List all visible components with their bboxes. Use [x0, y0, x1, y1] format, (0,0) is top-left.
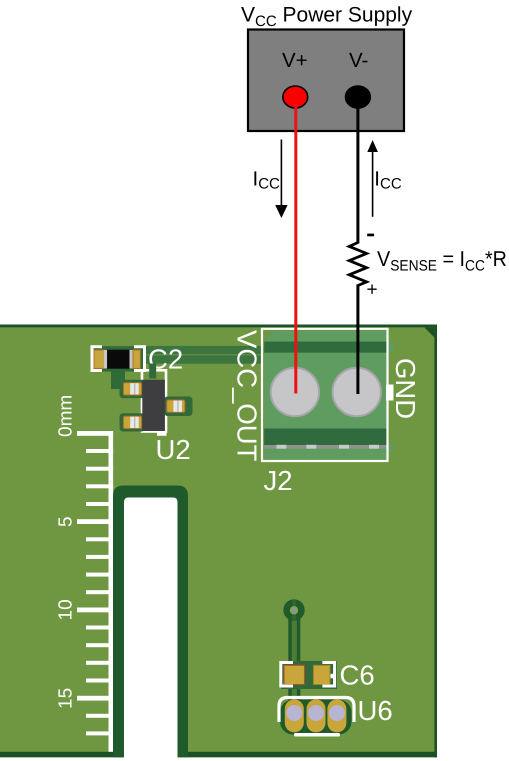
label C6 [340, 660, 375, 691]
current arrow up [367, 140, 378, 217]
resistor R sense [349, 243, 366, 286]
label U6 [358, 695, 393, 726]
trace C2 to J2 upper [100, 346, 263, 354]
svg-text:10: 10 [56, 599, 77, 620]
svg-text:0mm: 0mm [56, 395, 77, 437]
svg-text:ICC: ICC [253, 167, 281, 192]
svg-text:VCC Power Supply: VCC Power Supply [241, 4, 413, 31]
svg-text:U2: U2 [156, 434, 191, 465]
svg-text:C6: C6 [340, 660, 375, 691]
svg-text:5: 5 [56, 516, 77, 527]
svg-text:VSENSE = ICC*R: VSENSE = ICC*R [377, 247, 507, 275]
svg-text:V-: V- [349, 49, 368, 72]
svg-text:GND: GND [390, 358, 421, 419]
label ICC left [253, 167, 281, 192]
label V+ [282, 49, 308, 72]
connector J2 [262, 329, 394, 461]
label GND [390, 358, 421, 419]
via [283, 599, 304, 620]
label C2 [148, 344, 183, 375]
ruler label 0mm [56, 395, 77, 437]
ruler label 5 [56, 516, 77, 527]
svg-text:15: 15 [56, 688, 77, 709]
connector U6 [279, 698, 354, 737]
trace via to U6 [288, 610, 300, 700]
label VSENSE equation [377, 247, 507, 275]
svg-text:V+: V+ [282, 49, 308, 72]
slot cutout [113, 486, 188, 761]
capacitor C6 [281, 661, 337, 689]
terminal V- black [346, 86, 371, 108]
label VCC Power Supply [241, 4, 413, 31]
ruler [77, 431, 113, 752]
transistor U2 [120, 364, 193, 436]
label U2 [156, 434, 191, 465]
terminal V+ red [283, 86, 308, 108]
power supply box [248, 30, 404, 132]
wire black V- to resistor [356, 97, 359, 244]
terminal screw VCC_OUT [271, 368, 319, 416]
polarity minus [367, 234, 374, 237]
label ICC right [374, 167, 402, 192]
ruler label 15 [56, 688, 77, 709]
PCB board [0, 325, 437, 758]
terminal screw GND [333, 368, 381, 416]
wire black resistor to J2 [356, 285, 359, 395]
svg-text:+: + [367, 280, 378, 301]
polarity plus [367, 280, 378, 301]
trace C2 to J2 lower [100, 355, 263, 363]
svg-text:ICC: ICC [374, 167, 402, 192]
svg-text:U6: U6 [358, 695, 393, 726]
trace C2 to U2 [111, 367, 125, 389]
current arrow down [275, 140, 287, 219]
svg-text:J2: J2 [264, 465, 293, 496]
capacitor C2 [92, 347, 145, 372]
label VCC_OUT [232, 330, 263, 462]
svg-text:VCC_OUT: VCC_OUT [232, 330, 263, 462]
label V- [349, 49, 368, 72]
wire red V+ to J2 [294, 104, 297, 394]
label J2 [264, 465, 293, 496]
ruler label 10 [56, 599, 77, 620]
